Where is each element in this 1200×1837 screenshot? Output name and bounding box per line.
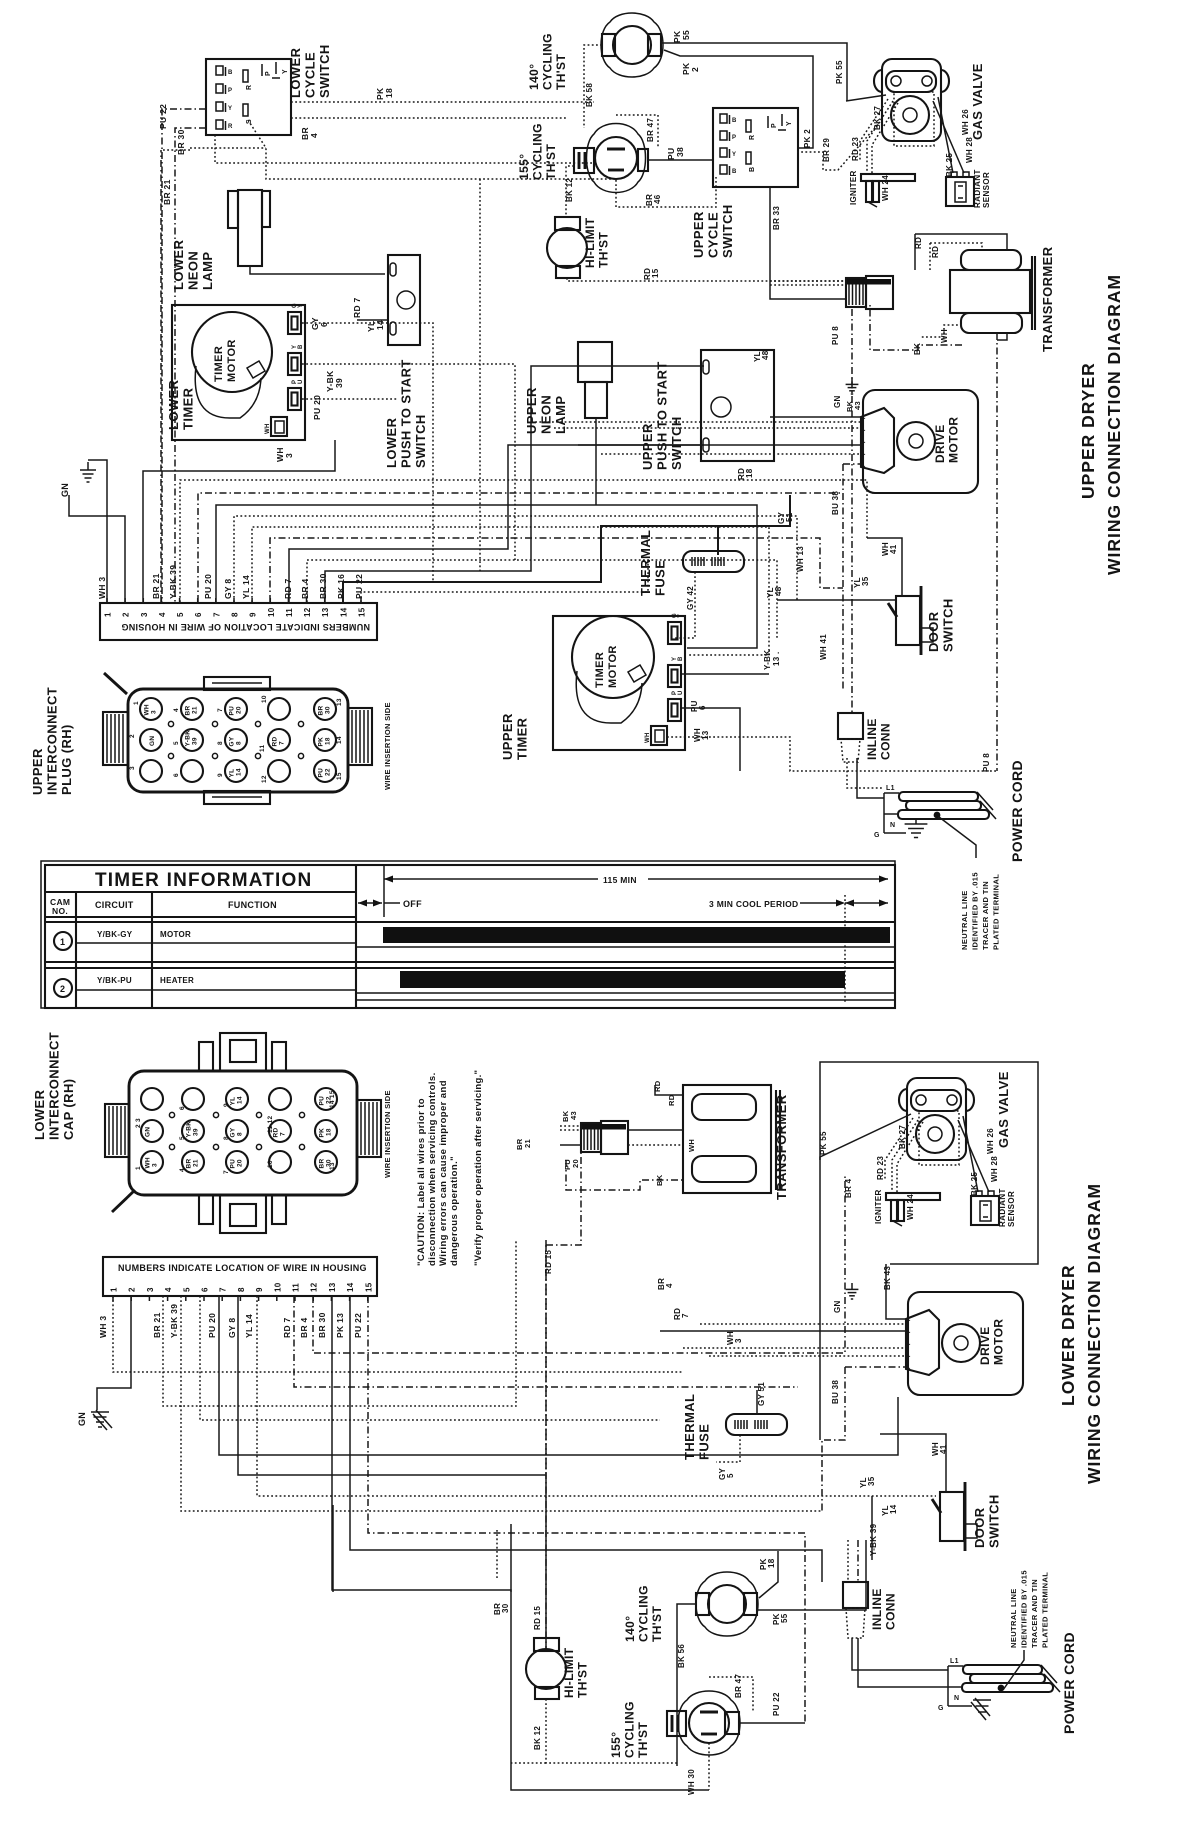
svg-text:WH 3: WH 3 xyxy=(98,1316,108,1338)
svg-text:12: 12 xyxy=(310,1282,319,1292)
svg-text:6: 6 xyxy=(194,612,203,617)
svg-text:RD 23: RD 23 xyxy=(876,1156,885,1180)
svg-text:41: 41 xyxy=(889,544,898,554)
svg-text:▪: ▪ xyxy=(909,1318,911,1323)
svg-text:MOTOR: MOTOR xyxy=(992,1319,1006,1365)
svg-text:8: 8 xyxy=(223,1136,230,1140)
svg-text:3 MIN COOL PERIOD: 3 MIN COOL PERIOD xyxy=(709,899,798,909)
svg-text:6: 6 xyxy=(179,1106,186,1110)
svg-text:140°: 140° xyxy=(623,1616,637,1642)
svg-text:WH: WH xyxy=(940,329,949,343)
svg-text:4: 4 xyxy=(158,612,167,617)
svg-text:B: B xyxy=(732,169,737,175)
svg-text:20: 20 xyxy=(237,1159,244,1167)
upper connector strip xyxy=(100,603,377,640)
svg-text:UPPER DRYER: UPPER DRYER xyxy=(1078,362,1098,499)
svg-text:PU 22: PU 22 xyxy=(354,574,364,599)
svg-text:LAMP: LAMP xyxy=(200,252,215,290)
svg-text:BR: BR xyxy=(319,1159,326,1169)
svg-text:48: 48 xyxy=(774,586,783,596)
svg-text:13: 13 xyxy=(336,698,343,706)
wire RD 7 to lower push to start xyxy=(357,319,388,321)
wire pin14 ladder xyxy=(343,495,790,602)
svg-text:LOWER: LOWER xyxy=(166,379,181,430)
wire BR 33 from upper cycle switch xyxy=(770,187,847,299)
svg-text:55: 55 xyxy=(780,1613,789,1623)
svg-text:8: 8 xyxy=(237,1132,244,1136)
wire PU 8 transformer xyxy=(851,309,853,713)
svg-text:TIMER: TIMER xyxy=(213,346,225,382)
svg-text:RD 7: RD 7 xyxy=(283,578,293,599)
svg-text:7: 7 xyxy=(212,612,221,617)
svg-text:14 15: 14 15 xyxy=(329,1090,336,1108)
wire from upper timer WH xyxy=(667,737,997,771)
svg-text:WH 24: WH 24 xyxy=(906,1194,915,1220)
igniter upper xyxy=(861,174,915,207)
svg-text:10: 10 xyxy=(273,1282,282,1292)
upper timer contacts xyxy=(668,622,681,644)
svg-text:B: B xyxy=(228,70,233,76)
wire PU 20 from lower timer xyxy=(302,398,398,400)
svg-text:BR 4: BR 4 xyxy=(300,578,310,599)
drive motor wires upper xyxy=(770,416,861,418)
svg-text:5: 5 xyxy=(182,1287,191,1292)
wire pin2 to lower ground xyxy=(97,1296,131,1410)
svg-text:▪: ▪ xyxy=(909,1342,911,1347)
svg-text:TH'ST: TH'ST xyxy=(576,1662,590,1698)
svg-text:3: 3 xyxy=(129,766,136,770)
svg-text:disconnection when servicing c: disconnection when servicing controls. xyxy=(427,1072,438,1266)
svg-text:TH'ST: TH'ST xyxy=(650,1606,664,1642)
svg-text:R: R xyxy=(246,85,253,90)
wire PK 55 lower xyxy=(757,1540,866,1610)
wire lower pin11 xyxy=(294,1296,798,1387)
gas valve lower enclosure wire xyxy=(820,1062,1038,1264)
svg-text:14: 14 xyxy=(889,1504,898,1514)
svg-text:"CAUTION: Label all wires prio: "CAUTION: Label all wires prior to xyxy=(416,1098,427,1266)
svg-text:Wiring errors can cause impro: Wiring errors can cause improper and xyxy=(438,1080,449,1266)
svg-text:39: 39 xyxy=(192,737,199,745)
svg-text:13: 13 xyxy=(329,1162,336,1170)
wire BR 21 xyxy=(163,149,190,151)
svg-text:YL: YL xyxy=(229,769,236,778)
wire BR 46 xyxy=(616,177,716,207)
svg-text:▪: ▪ xyxy=(864,428,866,433)
svg-text:PU 22: PU 22 xyxy=(772,1692,781,1716)
svg-text:UPPER: UPPER xyxy=(640,423,655,470)
svg-text:TH'ST: TH'ST xyxy=(636,1722,650,1758)
svg-text:7: 7 xyxy=(279,741,286,745)
svg-text:8: 8 xyxy=(237,1287,246,1292)
wire pin1 to ground xyxy=(88,460,107,602)
svg-text:▪: ▪ xyxy=(909,1366,911,1371)
table column headers xyxy=(45,892,356,1008)
svg-text:Y-BK: Y-BK xyxy=(186,1121,193,1138)
svg-text:▪: ▪ xyxy=(864,452,866,457)
wire PK 55 from 140 tstat xyxy=(661,43,847,101)
svg-text:PK 2: PK 2 xyxy=(803,129,812,148)
svg-text:WH 28: WH 28 xyxy=(990,1156,999,1182)
svg-text:13 .: 13 . xyxy=(772,651,781,666)
inline connector upper leads xyxy=(847,758,884,788)
svg-text:BK: BK xyxy=(655,1174,664,1186)
svg-text:2: 2 xyxy=(690,67,700,72)
svg-text:2: 2 xyxy=(128,1287,137,1292)
svg-text:POWER CORD: POWER CORD xyxy=(1009,760,1025,862)
svg-text:R: R xyxy=(228,124,233,130)
svg-text:Y/BK-PU: Y/BK-PU xyxy=(97,976,132,985)
svg-text:BR 21: BR 21 xyxy=(162,179,172,205)
svg-text:4: 4 xyxy=(164,1287,173,1292)
svg-text:THERMAL: THERMAL xyxy=(682,1394,697,1460)
wire pin5 ladder xyxy=(180,480,867,602)
wire from lower neon lamp xyxy=(250,266,385,274)
lower cycle switch xyxy=(206,59,291,135)
wire pin11 ladder xyxy=(289,445,704,602)
wire lower x511 upper stub xyxy=(510,1524,512,1592)
svg-text:BR 21: BR 21 xyxy=(152,1312,162,1338)
svg-text:140°: 140° xyxy=(527,64,541,90)
svg-text:CYCLING: CYCLING xyxy=(637,1585,651,1642)
lower strip wire labels xyxy=(98,1304,363,1338)
wire to thermal fuse top xyxy=(717,526,719,555)
lower interconnect cap xyxy=(105,1033,381,1233)
radiant sensor upper xyxy=(946,172,974,206)
svg-text:MOTOR: MOTOR xyxy=(947,417,961,463)
upper interconnect plug xyxy=(103,673,372,804)
svg-text:PU 22: PU 22 xyxy=(353,1313,363,1338)
svg-text:38: 38 xyxy=(675,147,685,157)
svg-text:LOWER: LOWER xyxy=(384,417,399,468)
svg-text:OFF: OFF xyxy=(403,899,422,909)
svg-text:7: 7 xyxy=(681,1313,690,1318)
wire BR 30 from lower cycle switch xyxy=(175,128,206,602)
svg-text:LOWER DRYER: LOWER DRYER xyxy=(1058,1264,1078,1406)
svg-text:2: 2 xyxy=(60,984,65,994)
svg-text:8: 8 xyxy=(236,741,243,745)
svg-text:BR 29: BR 29 xyxy=(822,138,831,162)
svg-text:GN: GN xyxy=(145,1127,152,1137)
svg-text:3: 3 xyxy=(152,1163,159,1167)
power cord lower xyxy=(938,1658,1060,1712)
wire lower pin14 xyxy=(350,1296,822,1582)
upper interconnect plug pins xyxy=(129,695,343,783)
wire lower pin13 xyxy=(332,1296,709,1790)
svg-text:1: 1 xyxy=(110,1287,119,1292)
svg-text:35: 35 xyxy=(867,1476,876,1486)
svg-text:14: 14 xyxy=(237,1096,244,1104)
lower connector strip xyxy=(103,1257,377,1296)
svg-text:PU: PU xyxy=(230,1159,237,1169)
wire RD 15 upper xyxy=(567,278,846,281)
svg-text:NUMBERS INDICATE LOCATION OF W: NUMBERS INDICATE LOCATION OF WIRE IN HOU… xyxy=(118,1263,367,1273)
svg-text:BR 47: BR 47 xyxy=(646,118,655,142)
svg-text:PU 20: PU 20 xyxy=(312,395,322,420)
svg-text:RD 15: RD 15 xyxy=(544,1250,553,1274)
wire pin12 ladder xyxy=(307,560,777,640)
svg-text:Y: Y xyxy=(732,152,736,158)
svg-text:Y: Y xyxy=(678,614,684,618)
wire PK 18 lower xyxy=(759,1551,778,1598)
wire lower left big vertical xyxy=(332,1505,334,1592)
timer information header xyxy=(45,870,356,892)
svg-text:MOTOR: MOTOR xyxy=(160,930,191,939)
svg-text:PK 13: PK 13 xyxy=(335,1313,345,1338)
wire BK 56 xyxy=(677,1604,696,1766)
svg-text:BR 4: BR 4 xyxy=(299,1317,309,1338)
svg-text:BK 12: BK 12 xyxy=(565,178,574,202)
svg-text:41: 41 xyxy=(939,1444,948,1454)
svg-text:4: 4 xyxy=(173,708,180,712)
svg-text:DRIVE: DRIVE xyxy=(933,424,947,463)
timer chart heater bar xyxy=(400,971,845,988)
door switch upper xyxy=(888,586,933,655)
svg-text:IDENTIFIED BY .015: IDENTIFIED BY .015 xyxy=(971,872,980,950)
svg-text:11: 11 xyxy=(259,744,266,752)
svg-text:▪: ▪ xyxy=(864,464,866,469)
wire WH 41 upper xyxy=(867,538,902,596)
svg-text:CONN: CONN xyxy=(884,1593,898,1630)
svg-text:PU: PU xyxy=(319,1096,326,1106)
svg-text:WH 28: WH 28 xyxy=(965,137,974,163)
wire pin7 ladder xyxy=(216,505,757,648)
svg-text:SWITCH: SWITCH xyxy=(669,416,684,470)
svg-text:GN: GN xyxy=(149,736,156,746)
lower timer box xyxy=(172,305,305,440)
svg-text:14: 14 xyxy=(346,1282,355,1292)
ground at power cord upper xyxy=(884,820,927,838)
svg-text:RADIANT: RADIANT xyxy=(973,169,982,208)
svg-text:TH'ST: TH'ST xyxy=(544,144,558,180)
svg-text:BR 30: BR 30 xyxy=(317,1312,327,1338)
svg-text:WH: WH xyxy=(144,704,151,715)
svg-text:▪: ▪ xyxy=(909,1330,911,1335)
svg-text:N: N xyxy=(954,1695,959,1702)
svg-text:P: P xyxy=(771,123,778,128)
svg-text:Y: Y xyxy=(786,121,793,126)
svg-text:B: B xyxy=(732,118,737,124)
upper strip wire labels xyxy=(97,565,364,599)
svg-text:WH 30: WH 30 xyxy=(687,1769,696,1795)
svg-text:5: 5 xyxy=(726,1473,735,1478)
wire YL 35 upper xyxy=(777,599,896,601)
svg-text:BR 4: BR 4 xyxy=(844,1178,853,1198)
lower strip pin numbers xyxy=(110,1282,374,1301)
140 cycling thermostat lower xyxy=(696,1572,758,1636)
svg-text:13: 13 xyxy=(328,1282,337,1292)
svg-text:51: 51 xyxy=(785,512,794,522)
svg-text:TIMER INFORMATION: TIMER INFORMATION xyxy=(95,870,312,891)
svg-text:TH'ST: TH'ST xyxy=(554,54,568,90)
svg-text:TRANSFORMER: TRANSFORMER xyxy=(1040,246,1055,352)
svg-text:LOWER: LOWER xyxy=(288,47,303,98)
svg-text:G: G xyxy=(874,832,880,839)
wire lower pin6 xyxy=(200,1296,660,1420)
svg-text:SWITCH: SWITCH xyxy=(941,598,956,652)
wire BK right side down xyxy=(996,333,998,771)
svg-text:3: 3 xyxy=(146,1287,155,1292)
svg-text:L1: L1 xyxy=(950,1658,959,1665)
wire GY 42 upper xyxy=(673,572,695,638)
svg-text:5: 5 xyxy=(176,612,185,617)
svg-text:PLATED TERMINAL: PLATED TERMINAL xyxy=(1041,1572,1050,1648)
igniter lower xyxy=(886,1193,940,1226)
svg-text:PU 20: PU 20 xyxy=(207,1313,217,1338)
wire pin15 ladder xyxy=(361,560,648,602)
ground GN upper left xyxy=(87,462,89,470)
svg-text:BR: BR xyxy=(185,706,192,716)
svg-text:SWITCH: SWITCH xyxy=(720,204,735,258)
svg-text:CYCLE: CYCLE xyxy=(303,52,318,98)
svg-text:BK 25: BK 25 xyxy=(970,1172,979,1196)
svg-text:155°: 155° xyxy=(609,1732,623,1758)
svg-text:LOWER: LOWER xyxy=(32,1089,47,1140)
svg-text:RADIANT: RADIANT xyxy=(998,1188,1007,1227)
wire lower pin15 xyxy=(368,1296,805,1723)
svg-text:NEON: NEON xyxy=(539,395,554,434)
svg-text:RD: RD xyxy=(272,737,279,747)
svg-text:18: 18 xyxy=(767,1558,776,1568)
svg-text:PK 55: PK 55 xyxy=(835,60,844,84)
lower push to start switch xyxy=(388,255,420,345)
svg-text:18: 18 xyxy=(325,737,332,745)
wire BU 38 upper xyxy=(842,464,844,493)
svg-text:21: 21 xyxy=(193,1159,200,1167)
svg-text:30: 30 xyxy=(501,1603,510,1613)
svg-text:2 3: 2 3 xyxy=(135,1118,142,1128)
wire from upper timer YB xyxy=(682,673,769,675)
svg-text:TIMER: TIMER xyxy=(594,652,606,688)
svg-text:3: 3 xyxy=(734,1338,743,1343)
wire pin3 ladder xyxy=(143,440,335,602)
svg-text:PU 20: PU 20 xyxy=(203,574,213,599)
svg-text:WIRE INSERTION SIDE: WIRE INSERTION SIDE xyxy=(383,1090,392,1178)
wire lower pin12 xyxy=(313,1175,845,1353)
svg-text:L1: L1 xyxy=(886,785,895,792)
transformer upper xyxy=(950,250,1035,333)
svg-text:12: 12 xyxy=(261,775,268,783)
wire from upper timer PU xyxy=(682,708,740,771)
svg-text:HI-LIMIT: HI-LIMIT xyxy=(583,217,597,268)
svg-text:WH 3: WH 3 xyxy=(97,577,107,599)
svg-text:11: 11 xyxy=(285,608,294,617)
svg-text:BR: BR xyxy=(318,706,325,716)
svg-text:TIMER: TIMER xyxy=(181,387,196,430)
svg-text:TRACER AND TIN: TRACER AND TIN xyxy=(1030,1579,1039,1648)
wire pin13 ladder xyxy=(325,366,704,602)
wire PK 55 lower long xyxy=(819,1157,821,1440)
wire PU 22 lower xyxy=(739,1722,805,1724)
svg-text:21: 21 xyxy=(192,706,199,714)
svg-text:PK: PK xyxy=(319,1128,326,1138)
lower interconnect cap pins xyxy=(135,1088,337,1174)
svg-text:115 MIN: 115 MIN xyxy=(603,875,637,885)
wires into transformer connector xyxy=(770,280,846,282)
svg-text:B: B xyxy=(298,344,304,349)
thermal fuse lower xyxy=(726,1414,787,1435)
svg-text:GAS VALVE: GAS VALVE xyxy=(970,63,985,140)
svg-text:155°: 155° xyxy=(517,154,531,180)
svg-text:9: 9 xyxy=(249,612,258,617)
wire y1766 from BK56 xyxy=(511,1762,546,1764)
inline connector upper xyxy=(838,713,863,762)
svg-text:13: 13 xyxy=(321,607,330,617)
svg-text:LOWER: LOWER xyxy=(171,239,186,290)
155 cycling thermostat upper xyxy=(574,124,648,193)
svg-text:PK: PK xyxy=(318,737,325,747)
svg-text:PU 8: PU 8 xyxy=(982,753,991,772)
wire lower pin7 xyxy=(219,1296,898,1455)
transformer lower xyxy=(683,1085,780,1193)
door switch lower xyxy=(932,1482,977,1551)
svg-text:BR: BR xyxy=(186,1159,193,1169)
svg-text:Y-BK 39: Y-BK 39 xyxy=(168,565,178,599)
svg-text:BR 30: BR 30 xyxy=(318,573,328,599)
svg-text:4: 4 xyxy=(665,1283,674,1288)
svg-text:FUSE: FUSE xyxy=(697,1424,712,1460)
svg-text:NO.: NO. xyxy=(52,906,68,916)
wire pin9 ladder xyxy=(252,527,769,655)
svg-text:WH: WH xyxy=(645,732,651,743)
svg-text:Y: Y xyxy=(298,304,304,308)
svg-text:8: 8 xyxy=(231,612,240,617)
wire BK 43 lower xyxy=(886,1264,906,1319)
svg-text:BK 56: BK 56 xyxy=(677,1644,686,1668)
wire lower pin4 xyxy=(163,1240,516,1406)
svg-text:GN: GN xyxy=(77,1412,87,1426)
svg-text:CYCLING: CYCLING xyxy=(541,33,555,90)
svg-text:P: P xyxy=(732,135,736,141)
svg-text:UPPER: UPPER xyxy=(500,713,515,760)
svg-text:1: 1 xyxy=(60,937,65,947)
svg-text:PU 22: PU 22 xyxy=(158,104,168,129)
svg-text:PU: PU xyxy=(318,768,325,778)
table row 1 xyxy=(45,922,895,962)
svg-text:PLATED TERMINAL: PLATED TERMINAL xyxy=(992,874,1001,950)
svg-text:14: 14 xyxy=(375,320,385,330)
upper neon lamp xyxy=(578,342,612,418)
svg-text:WH 24: WH 24 xyxy=(881,175,890,201)
svg-text:39: 39 xyxy=(334,378,344,388)
svg-text:9: 9 xyxy=(217,773,224,777)
svg-text:THERMAL: THERMAL xyxy=(638,530,653,596)
timing chart off label xyxy=(358,899,422,909)
upper cycle switch xyxy=(713,108,798,187)
svg-text:18: 18 xyxy=(384,88,394,98)
svg-text:BR 30: BR 30 xyxy=(176,129,186,155)
svg-text:6: 6 xyxy=(173,773,180,777)
svg-text:WIRING CONNECTION DIAGRAM: WIRING CONNECTION DIAGRAM xyxy=(1084,1183,1104,1484)
svg-text:9: 9 xyxy=(255,1287,264,1292)
svg-text:TRACER AND TIN: TRACER AND TIN xyxy=(981,881,990,950)
wire BR 47 lower xyxy=(709,1677,753,1712)
svg-text:B: B xyxy=(749,167,756,172)
svg-text:11: 11 xyxy=(292,1283,301,1292)
svg-text:3: 3 xyxy=(140,612,149,617)
svg-text:14: 14 xyxy=(236,768,243,776)
svg-text:Y-BK: Y-BK xyxy=(185,730,192,747)
wire BK 58 xyxy=(584,45,602,128)
svg-text:Y-BK: Y-BK xyxy=(763,650,772,670)
timer chart extra lines xyxy=(356,947,895,1000)
wire pin2 to ground xyxy=(69,495,125,602)
wire WH 30 lower xyxy=(708,1743,710,1790)
svg-text:YL 14: YL 14 xyxy=(241,575,251,599)
svg-text:1: 1 xyxy=(135,1166,142,1170)
upper strip pin numbers xyxy=(104,598,367,617)
svg-text:21: 21 xyxy=(523,1139,532,1148)
svg-text:GN: GN xyxy=(60,483,70,497)
